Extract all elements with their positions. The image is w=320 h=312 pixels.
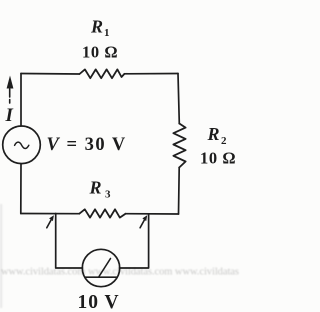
voltmeter M1 bbox=[82, 249, 119, 286]
source V1 bbox=[3, 126, 41, 164]
wire right rail lower bbox=[178, 168, 181, 215]
scan smudge left edge bbox=[0, 204, 2, 308]
voltmeter needle bbox=[99, 259, 111, 277]
wire right rail upper bbox=[178, 74, 179, 124]
wire bottom left segment bbox=[21, 213, 80, 215]
svg-text:2: 2 bbox=[221, 135, 227, 147]
svg-text:R: R bbox=[90, 17, 103, 37]
svg-text:10 Ω: 10 Ω bbox=[82, 43, 118, 62]
tilde of source bbox=[15, 142, 29, 148]
current arrow I shaft bbox=[9, 89, 11, 103]
wire left rail upper bbox=[20, 74, 22, 127]
wire left rail lower bbox=[20, 164, 22, 214]
wire top-left segment bbox=[21, 73, 79, 76]
voltmeter face chord bbox=[85, 276, 117, 278]
wire bottom right segment bbox=[126, 213, 179, 215]
wire top-right segment bbox=[125, 73, 179, 75]
svg-text:3: 3 bbox=[105, 189, 111, 201]
current arrow I head bbox=[7, 76, 14, 89]
probe arrow right head bbox=[142, 215, 147, 221]
svg-text:10 V: 10 V bbox=[78, 292, 120, 312]
svg-text:1: 1 bbox=[104, 27, 110, 39]
wire voltmeter left drop bbox=[56, 214, 83, 269]
resistor R3 bbox=[79, 209, 125, 217]
svg-text:R: R bbox=[207, 124, 220, 144]
resistor R1 bbox=[80, 69, 125, 78]
svg-text:www.civildatas.com www.civilda: www.civildatas.com www.civildatas.com ww… bbox=[1, 267, 239, 278]
resistor R2 bbox=[173, 124, 185, 168]
probe arrow left head bbox=[49, 215, 54, 221]
svg-text:I: I bbox=[5, 105, 14, 126]
svg-text:10 Ω: 10 Ω bbox=[200, 149, 236, 168]
svg-text:R: R bbox=[89, 178, 102, 198]
wire voltmeter right drop bbox=[120, 214, 149, 268]
svg-text:V = 30 V: V = 30 V bbox=[47, 135, 127, 155]
probe arrow right shaft bbox=[140, 220, 144, 228]
probe arrow left shaft bbox=[47, 220, 51, 228]
